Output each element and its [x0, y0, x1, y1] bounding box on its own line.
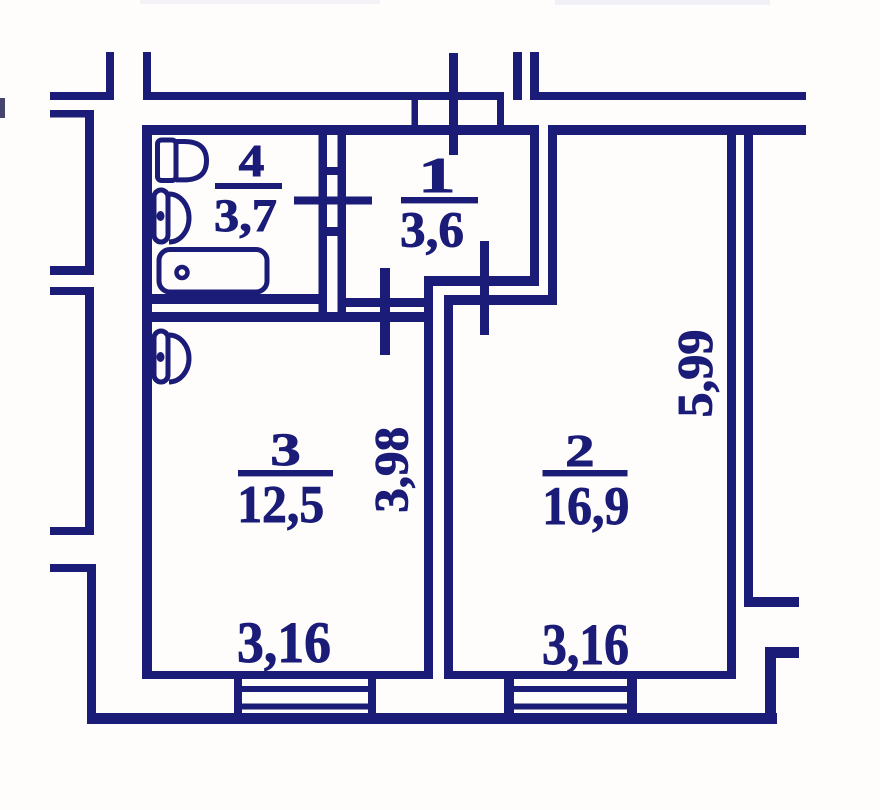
sink bathroom bowl — [169, 194, 189, 242]
wall right outer step — [744, 597, 799, 607]
scan artifact left edge — [0, 98, 5, 118]
wall bathroom bottom — [142, 294, 327, 304]
faint top scan smudge left — [140, 0, 380, 4]
window room3 cap right — [368, 674, 376, 717]
wall hall bottom-right step A — [424, 276, 539, 286]
wall left outer segment 3 — [87, 564, 96, 723]
wall left outer top stub — [50, 110, 90, 118]
svg-text:5,99: 5,99 — [667, 330, 723, 418]
wall party stub left — [106, 52, 114, 100]
door tick bathroom — [294, 197, 372, 205]
sink room3 body — [154, 331, 168, 382]
wall divider 3-2 left line — [424, 276, 433, 679]
toilet tank — [158, 140, 177, 181]
wall top outer left span — [143, 92, 504, 100]
window tick hall top — [449, 53, 458, 155]
window room2 cap right — [627, 678, 637, 717]
wall room3 bottom — [142, 671, 433, 679]
sink bathroom dot — [157, 211, 165, 221]
window room3 line 2 — [242, 704, 368, 710]
wall top-left outer stub horizontal — [50, 92, 107, 100]
balcony stub upper — [50, 527, 93, 535]
wall connector above hall — [412, 97, 419, 127]
wall hall bottom — [338, 298, 434, 307]
svg-text:3,6: 3,6 — [400, 203, 464, 259]
rung upper bathroom door frame — [327, 167, 338, 175]
wall left outer segment 1 — [85, 110, 94, 275]
label room 4 underline — [215, 183, 282, 189]
window tick top A — [513, 52, 522, 100]
wall room2 left upper — [548, 135, 557, 305]
svg-text:3,16: 3,16 — [237, 610, 331, 675]
bathtub drain — [177, 267, 188, 278]
svg-text:3,98: 3,98 — [367, 427, 419, 513]
svg-text:4: 4 — [239, 135, 265, 187]
wall hall left — [338, 135, 347, 322]
wall room2 right inner — [727, 135, 736, 679]
window tick top B — [530, 52, 539, 100]
wall room3 top — [142, 312, 433, 322]
sink room3 dot — [157, 352, 165, 362]
wall room2 top — [548, 125, 806, 135]
wall bathroom right — [319, 135, 328, 322]
wall party stub right (above bathroom left wall) — [143, 52, 151, 100]
wall right lower corner vertical — [765, 647, 776, 723]
label room 2 underline — [543, 470, 628, 476]
toilet bowl — [176, 142, 207, 180]
wall niche bottom B — [444, 295, 557, 305]
door tick hall to room3 — [380, 268, 390, 355]
window stub left upper — [50, 266, 94, 275]
bathtub — [159, 250, 267, 293]
label room 3 underline — [238, 470, 333, 476]
wall apartment inner left — [142, 125, 152, 671]
svg-text:3,16: 3,16 — [542, 612, 629, 677]
faint top scan smudge right — [555, 0, 770, 5]
wall divider 3-2 right line — [444, 295, 453, 679]
sink bathroom body — [154, 190, 168, 242]
wall connector above hall right — [497, 97, 504, 127]
label room 1 underline — [401, 197, 478, 203]
wall top outer right span — [530, 92, 806, 100]
wall hall right — [530, 135, 539, 286]
wall room2 right outer — [744, 126, 753, 607]
svg-text:3,7: 3,7 — [214, 190, 277, 242]
window room2 line 2 — [514, 704, 627, 710]
sink room3 bowl — [169, 335, 189, 382]
window room2 line 1 — [514, 686, 627, 692]
svg-text:1: 1 — [418, 147, 455, 203]
rung lower bathroom door frame — [327, 227, 338, 236]
window stub left lower — [50, 287, 94, 295]
wall bottom outer — [87, 713, 777, 724]
window room3 line 1 — [242, 686, 368, 692]
svg-text:2: 2 — [565, 426, 594, 476]
window room3 cap left — [234, 678, 242, 717]
wall right lower ledge — [765, 647, 799, 658]
wall room2 bottom — [444, 671, 736, 679]
svg-text:3: 3 — [270, 423, 301, 476]
svg-text:16,9: 16,9 — [542, 476, 629, 536]
wall left outer segment 2 — [85, 287, 94, 535]
door tick to room2 — [480, 241, 489, 335]
wall top of bathroom and hall — [142, 125, 539, 135]
svg-text:12,5: 12,5 — [237, 476, 324, 534]
balcony stub lower — [50, 564, 96, 572]
window room2 cap left — [504, 678, 514, 717]
